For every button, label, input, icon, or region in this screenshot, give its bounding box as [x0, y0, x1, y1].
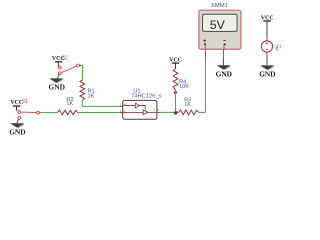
- resistor R1: [80, 80, 95, 100]
- VCC symbol for S2: [52, 56, 65, 66]
- svg-text:XMM1: XMM1: [211, 3, 228, 9]
- wire R4 to output node: [175, 90, 177, 112]
- U1 internal buffer 2: [123, 110, 157, 115]
- VCC symbol for V1: [261, 15, 274, 41]
- svg-text:GND: GND: [216, 69, 232, 78]
- svg-text:Y: Y: [153, 108, 155, 112]
- svg-text:1K: 1K: [184, 102, 191, 108]
- svg-text:74HC126_s: 74HC126_s: [131, 93, 162, 99]
- source V1 labels: [276, 43, 282, 51]
- ground under meter: [216, 65, 232, 78]
- ground under V1: [259, 65, 275, 78]
- switch S1: [18, 111, 40, 120]
- resistor R2: [58, 97, 78, 115]
- svg-text:1K: 1K: [66, 101, 73, 107]
- svg-text:1K: 1K: [88, 93, 95, 99]
- op-amp U1 labels: [131, 88, 162, 99]
- svg-text:5V: 5V: [210, 18, 226, 32]
- U1 internal buffer 1: [123, 103, 146, 110]
- wire S2 to R1: [79, 65, 81, 67]
- VCC symbol for R4: [169, 57, 182, 68]
- svg-text:GND: GND: [9, 127, 25, 136]
- VCC symbol for S1: [10, 100, 23, 111]
- op-amp U1 body: [123, 100, 157, 119]
- multimeter XMM1 body: [199, 10, 241, 49]
- source V1: [261, 41, 272, 52]
- switch S2: [58, 64, 79, 75]
- svg-text:5: 5: [276, 47, 279, 52]
- wire S1 to R2: [39, 112, 41, 114]
- svg-text:GND: GND: [49, 83, 65, 92]
- wire R1 to U1 pin OE: [82, 100, 122, 106]
- resistor R4: [173, 69, 189, 91]
- multimeter - terminal: [223, 41, 226, 50]
- wire R3 to meter riser: [199, 111, 206, 113]
- svg-text:GND: GND: [259, 70, 275, 79]
- svg-text:S1: S1: [22, 99, 28, 105]
- junction at R4 bottom node: [174, 111, 178, 115]
- U1 pin 2 OE labels: [120, 102, 127, 106]
- svg-text:S2: S2: [62, 55, 68, 61]
- wire V1 to ground: [266, 52, 268, 65]
- multimeter display: [203, 14, 237, 32]
- multimeter + terminal: [203, 39, 206, 49]
- wire R2 to U1 pin A: [77, 112, 122, 114]
- junction dot below R4: [174, 91, 177, 94]
- wire U1 output to node: [157, 111, 179, 113]
- wire meter riser: [204, 49, 206, 112]
- ground under S2: [49, 75, 65, 92]
- svg-text:10K: 10K: [179, 84, 189, 90]
- ground under S1: [9, 119, 25, 136]
- U1 pin 1 A labels: [120, 109, 126, 113]
- wire meter minus to ground: [222, 49, 224, 65]
- U1 pin 3 Y labels: [153, 108, 159, 112]
- resistor R3: [178, 98, 198, 115]
